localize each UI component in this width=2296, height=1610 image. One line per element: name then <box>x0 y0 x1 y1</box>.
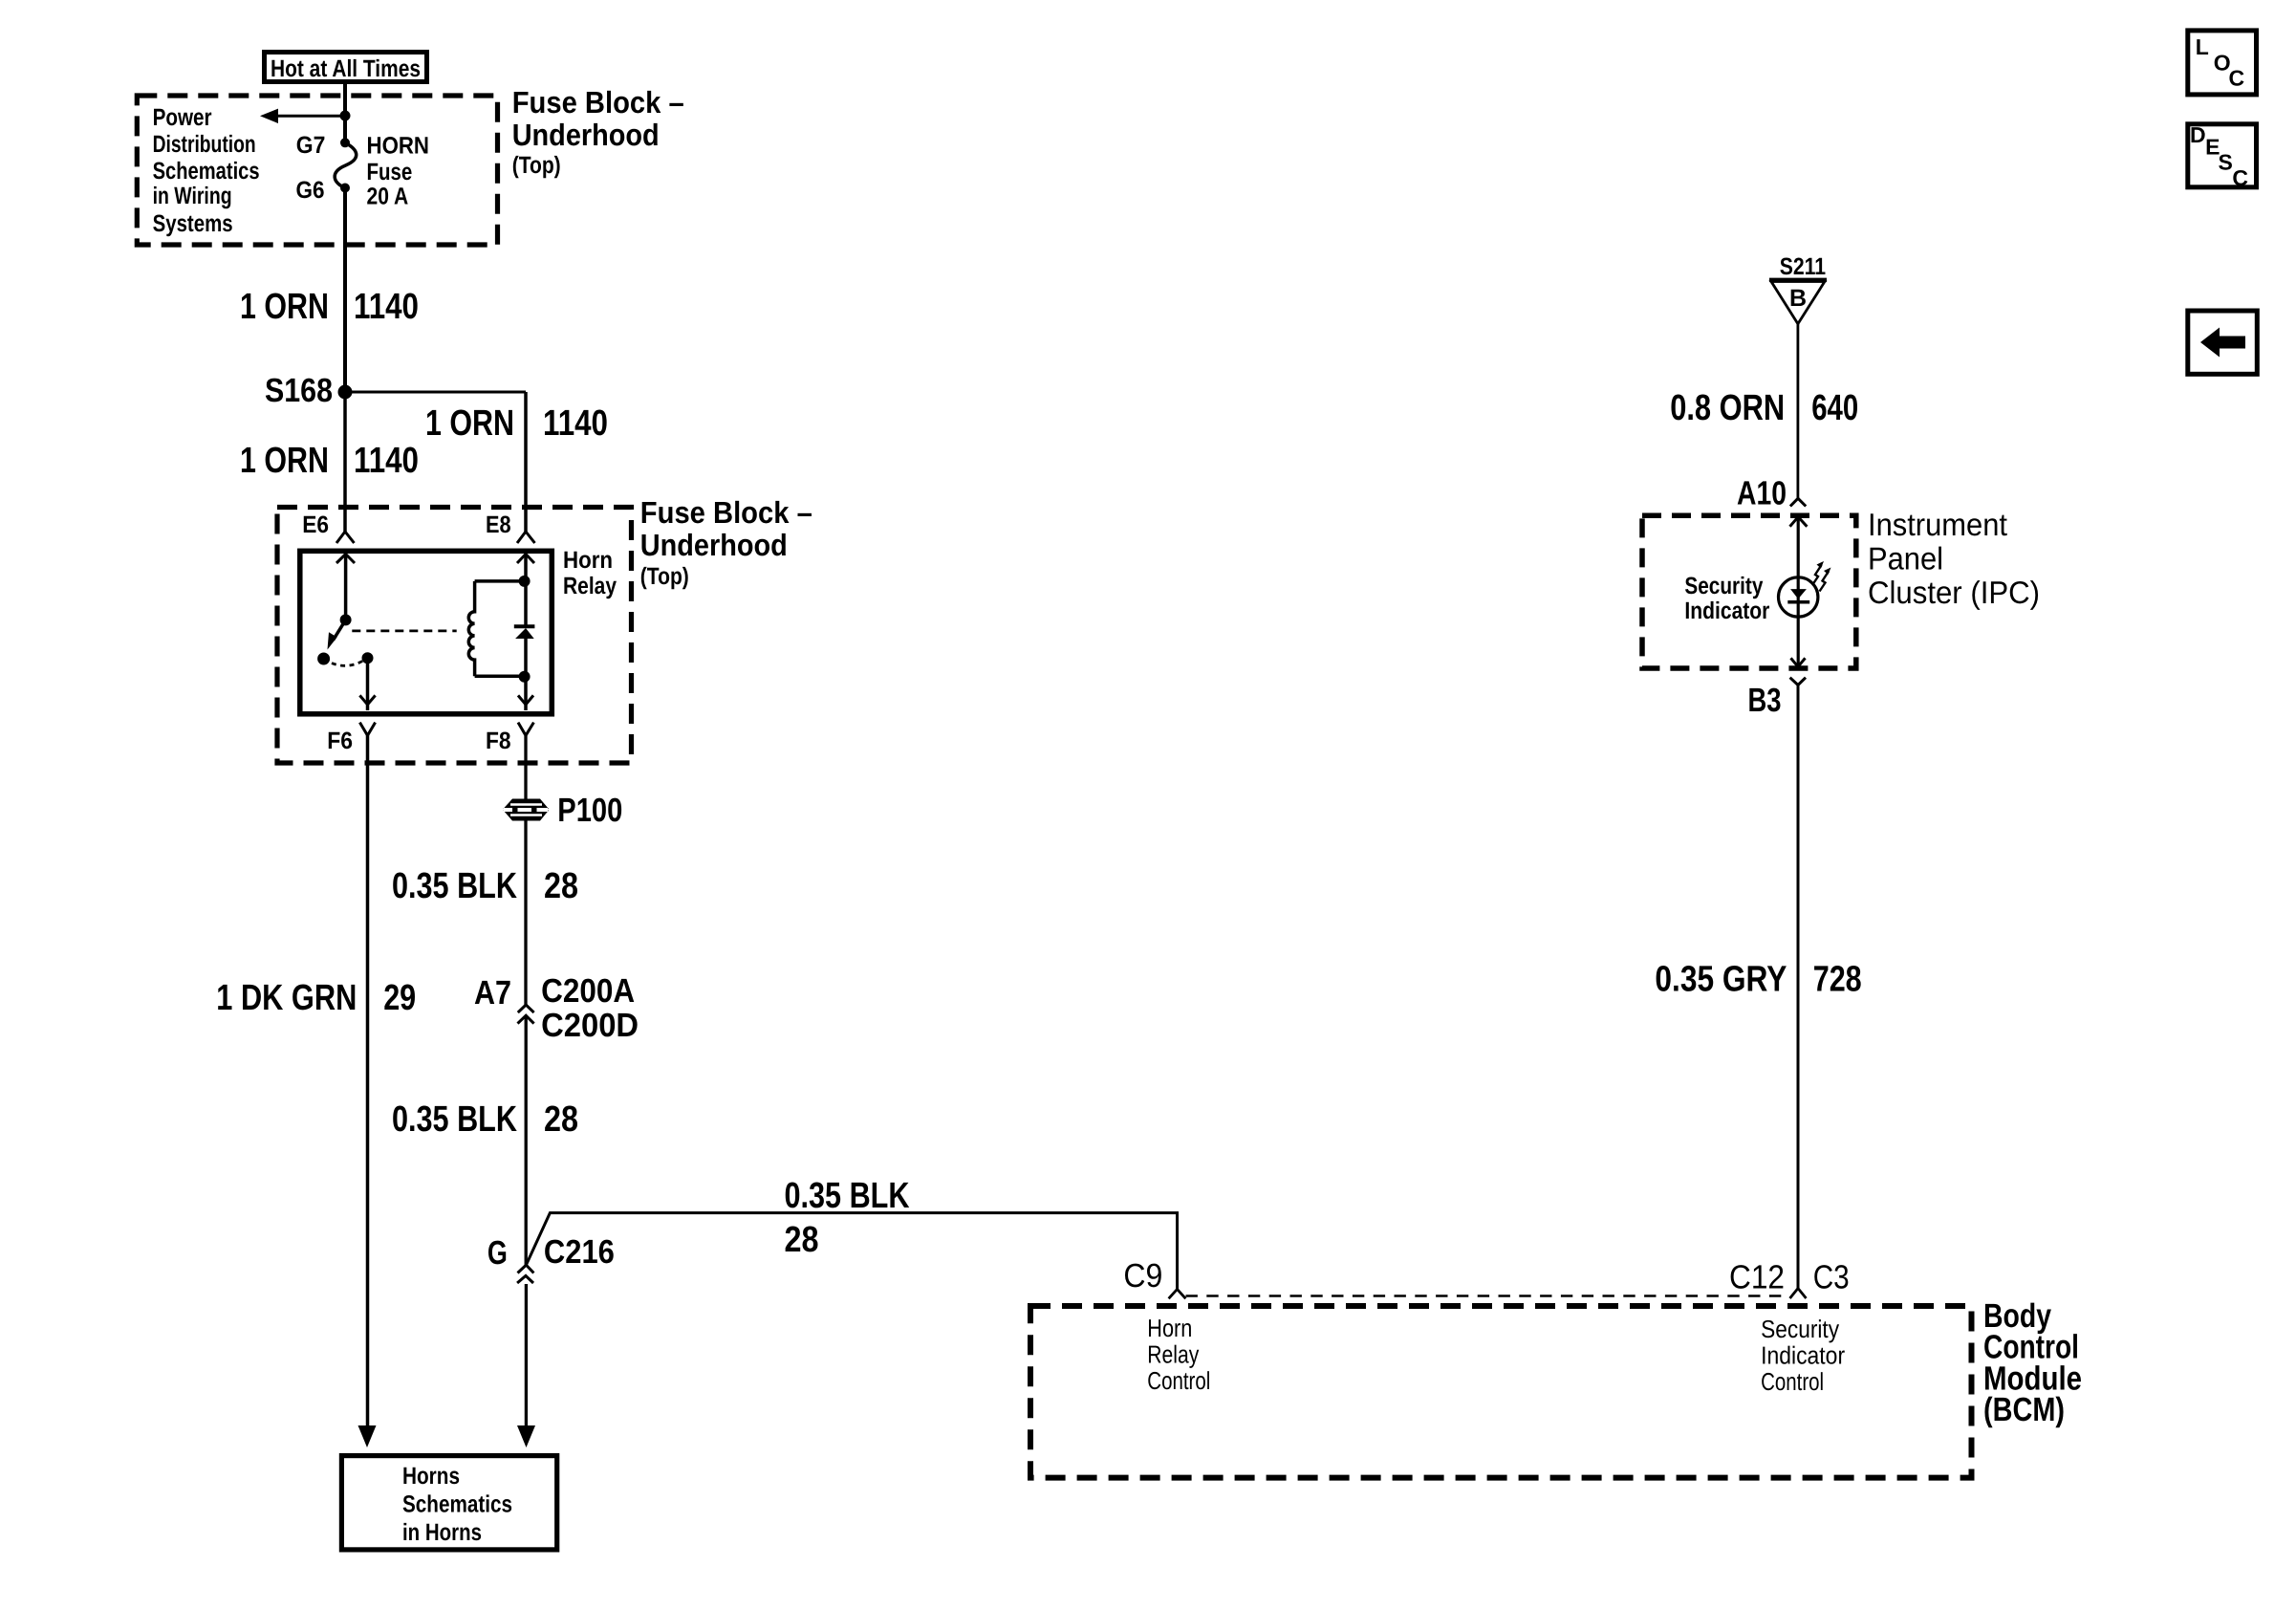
relay switch dashed throw arc <box>324 658 368 665</box>
svg-text:C216: C216 <box>544 1233 615 1271</box>
svg-text:1 ORN: 1 ORN <box>240 441 329 481</box>
svg-text:Cluster (IPC): Cluster (IPC) <box>1868 575 2040 610</box>
back arrow icon <box>2200 328 2245 358</box>
relay mechanical dashed link <box>352 630 456 633</box>
svg-text:Schematics: Schematics <box>153 158 260 185</box>
wire label 0.35 GRY 728 <box>1655 960 1861 1000</box>
text Horn Relay Control <box>1147 1314 1210 1395</box>
connector B3 female symbol <box>1790 678 1806 685</box>
svg-text:Schematics: Schematics <box>402 1491 512 1518</box>
svg-text:F6: F6 <box>327 728 353 754</box>
wire 0.8 ORN 640 S211 to A10 <box>1797 324 1800 499</box>
back arrow button box <box>2188 311 2258 374</box>
svg-text:P100: P100 <box>557 792 622 829</box>
wire 0.35 BLK 28 P100 to C200 <box>524 821 527 1006</box>
IPC entry arrow up <box>1790 517 1808 527</box>
connector C12 male symbol <box>1790 1289 1807 1299</box>
svg-text:Power: Power <box>153 104 212 131</box>
svg-text:Control: Control <box>1761 1367 1824 1396</box>
body control module dashed box <box>1030 1306 1972 1478</box>
svg-text:0.35 BLK: 0.35 BLK <box>392 1099 517 1140</box>
text Instrument Panel Cluster (IPC) <box>1868 507 2040 610</box>
svg-text:28: 28 <box>785 1220 819 1260</box>
connector C9 male symbol <box>1169 1289 1186 1298</box>
text Security Indicator <box>1684 573 1769 624</box>
svg-text:(Top): (Top) <box>640 563 689 590</box>
svg-text:(BCM): (BCM) <box>1983 1391 2065 1428</box>
svg-text:C9: C9 <box>1123 1257 1162 1295</box>
svg-text:0.35 BLK: 0.35 BLK <box>785 1176 910 1216</box>
node label Hot at All Times box <box>265 53 427 82</box>
svg-text:Fuse Block –: Fuse Block – <box>512 85 684 120</box>
relay coil pin E8 arrow inside <box>517 555 534 626</box>
svg-text:B3: B3 <box>1748 682 1782 719</box>
svg-text:D: D <box>2190 122 2206 147</box>
text Security Indicator Control <box>1761 1315 1845 1396</box>
wire junction to fuse pin G7 <box>343 116 347 142</box>
IPC exit arrow down <box>1791 658 1806 666</box>
svg-text:0.35 GRY: 0.35 GRY <box>1655 960 1787 1000</box>
svg-text:B: B <box>1789 285 1807 312</box>
svg-text:G7: G7 <box>296 132 326 159</box>
wire branch diagonal to BCM <box>526 1213 1177 1290</box>
instrument panel cluster dashed box <box>1642 515 1856 668</box>
text DESC diagonal <box>2190 122 2248 190</box>
LED security indicator circle <box>1779 577 1818 617</box>
svg-text:1 ORN: 1 ORN <box>425 403 514 444</box>
wire label 0.8 ORN 640 <box>1670 388 1858 428</box>
connector C200 pass-through chevrons <box>518 1005 534 1024</box>
svg-text:1 ORN: 1 ORN <box>240 287 329 327</box>
svg-text:Security: Security <box>1761 1315 1839 1343</box>
svg-text:728: 728 <box>1813 960 1862 1000</box>
svg-text:Systems: Systems <box>153 210 233 237</box>
svg-text:F8: F8 <box>486 728 511 754</box>
svg-text:Relay: Relay <box>563 573 617 599</box>
pin G6 terminal dot <box>340 184 350 193</box>
connector F8 female symbol <box>518 723 533 736</box>
svg-text:C200A: C200A <box>541 972 635 1010</box>
svg-text:Indicator: Indicator <box>1761 1341 1845 1370</box>
relay switch output contact dot <box>362 652 374 664</box>
svg-text:Underhood: Underhood <box>640 528 788 562</box>
relay NO contact dot <box>317 653 330 665</box>
svg-text:Indicator: Indicator <box>1684 598 1769 624</box>
grommet P100 <box>504 799 550 821</box>
wire S168 down to E6 <box>343 392 347 532</box>
svg-text:C: C <box>2232 165 2248 190</box>
connector A10 male symbol <box>1790 498 1806 506</box>
svg-text:29: 29 <box>383 978 416 1018</box>
svg-text:20 A: 20 A <box>367 184 409 210</box>
relay coil L1 <box>468 581 524 676</box>
svg-text:A10: A10 <box>1737 475 1787 512</box>
relay switch pivot node <box>340 614 352 625</box>
relay switch armature arrow <box>328 620 346 649</box>
svg-text:Horns: Horns <box>402 1463 460 1490</box>
svg-text:640: 640 <box>1811 388 1858 428</box>
wire S168 branch horizontal <box>345 391 526 394</box>
svg-text:Panel: Panel <box>1868 541 1943 577</box>
svg-text:in Horns: in Horns <box>402 1519 482 1546</box>
fuse block underhood dashed box (relay) <box>277 508 632 764</box>
text Fuse Block Underhood (Top) label right <box>640 495 812 590</box>
text Horns Schematics in Horns <box>402 1463 512 1546</box>
svg-text:Fuse Block –: Fuse Block – <box>640 495 812 530</box>
svg-text:Distribution: Distribution <box>153 131 256 158</box>
wire 0.35 GRY 728 B3 to C12 <box>1797 685 1800 1289</box>
wire label 1 ORN 1140 (right branch) <box>425 403 608 444</box>
LED light emission arrows <box>1812 561 1831 592</box>
svg-text:S211: S211 <box>1780 253 1826 280</box>
wire through IPC <box>1797 517 1800 667</box>
svg-text:C12: C12 <box>1729 1259 1785 1296</box>
connector E8 female symbol <box>517 532 535 543</box>
pin G7 terminal dot <box>340 138 350 147</box>
wire arrow to Power Distribution Schematics <box>260 109 345 123</box>
relay K Horn Relay box <box>300 551 552 714</box>
wire label 1 ORN 1140 (lower left) <box>240 441 419 481</box>
svg-text:0.8 ORN: 0.8 ORN <box>1670 388 1785 428</box>
connector C216 pass-through chevrons <box>517 1265 533 1283</box>
wire C216 down to horns <box>525 1284 528 1426</box>
svg-text:1140: 1140 <box>354 287 419 327</box>
text Fuse Block Underhood (Top) label top <box>512 85 684 179</box>
wire label 1 ORN 1140 (upper) <box>240 287 419 327</box>
splice pack S211 triangle B <box>1769 280 1827 324</box>
wire 1 ORN 1140 fuse to S168 <box>343 188 347 393</box>
coil bottom junction node <box>519 671 531 683</box>
text Power Distribution Schematics in Wiring Systems <box>153 104 260 237</box>
svg-text:G6: G6 <box>296 177 325 204</box>
svg-text:28: 28 <box>544 1099 578 1140</box>
DESC button box <box>2188 124 2257 187</box>
wire arrow into Horns box left <box>358 1425 377 1447</box>
wire 1 DK GRN 29 F6 down to horns <box>366 735 370 1426</box>
connector E6 female symbol <box>336 532 355 543</box>
fuse HORN Fuse 20 A (S-curve element) <box>335 142 357 187</box>
svg-text:A7: A7 <box>474 974 511 1012</box>
junction node on feed wire <box>340 111 351 121</box>
wire label 1 DK GRN 29 <box>216 978 416 1018</box>
svg-text:Hot at All Times: Hot at All Times <box>271 55 421 82</box>
relay switch common pin E6 arrow inside <box>336 555 355 620</box>
svg-text:Horn: Horn <box>1147 1314 1192 1342</box>
wire F8 down to P100 <box>524 735 527 799</box>
svg-text:Fuse: Fuse <box>367 159 413 185</box>
BCM internal dashed line C9 to C12 <box>1186 1295 1786 1297</box>
text LOC diagonal <box>2196 34 2244 90</box>
coil top junction node <box>519 576 531 587</box>
svg-text:C: C <box>2229 66 2245 91</box>
svg-text:C3: C3 <box>1813 1259 1850 1296</box>
svg-text:Horn: Horn <box>563 547 613 574</box>
svg-text:E8: E8 <box>486 511 511 538</box>
svg-text:Security: Security <box>1684 573 1763 599</box>
fuse block underhood dashed box (top) <box>137 96 497 245</box>
svg-text:28: 28 <box>544 866 578 906</box>
svg-text:1140: 1140 <box>354 441 419 481</box>
wire arrow into Horns box right <box>517 1425 535 1447</box>
Horns Schematics box <box>341 1456 556 1550</box>
text Horn Relay <box>563 547 617 599</box>
svg-text:1140: 1140 <box>543 403 608 444</box>
connector F6 female symbol <box>359 723 375 736</box>
svg-text:in Wiring: in Wiring <box>153 183 232 209</box>
svg-text:L: L <box>2196 34 2209 59</box>
svg-text:S: S <box>2219 150 2233 175</box>
svg-text:C200D: C200D <box>541 1007 639 1044</box>
svg-text:(Top): (Top) <box>512 152 561 179</box>
wire relay coil down arrow at F8 <box>518 695 533 705</box>
svg-text:Relay: Relay <box>1147 1340 1199 1369</box>
svg-text:0.35 BLK: 0.35 BLK <box>392 866 517 906</box>
wire label 0.35 BLK 28 (upper) <box>392 866 578 906</box>
LED triangle and cathode bar <box>1787 589 1809 602</box>
svg-text:Instrument: Instrument <box>1868 507 2007 542</box>
svg-text:Underhood: Underhood <box>512 118 660 152</box>
svg-text:E6: E6 <box>302 511 329 538</box>
svg-text:G: G <box>487 1234 508 1272</box>
wire label 0.35 BLK 28 (lower) <box>392 1099 578 1140</box>
wire branch down to E8 <box>524 392 528 532</box>
svg-text:S168: S168 <box>265 372 333 409</box>
svg-text:HORN: HORN <box>367 133 430 160</box>
splice node S168 <box>338 385 353 400</box>
wire relay output down with arrow <box>359 658 375 710</box>
wire from Hot at All Times down <box>343 84 347 116</box>
svg-text:1 DK GRN: 1 DK GRN <box>216 978 357 1018</box>
wire 0.35 BLK 28 C200 to C216 <box>525 1016 528 1265</box>
text Body Control Module (BCM) <box>1983 1297 2082 1428</box>
value label HORN Fuse 20 A <box>367 133 430 210</box>
LOC button box <box>2188 31 2257 95</box>
diode D1 clamp <box>514 626 535 710</box>
svg-text:Control: Control <box>1147 1366 1210 1395</box>
